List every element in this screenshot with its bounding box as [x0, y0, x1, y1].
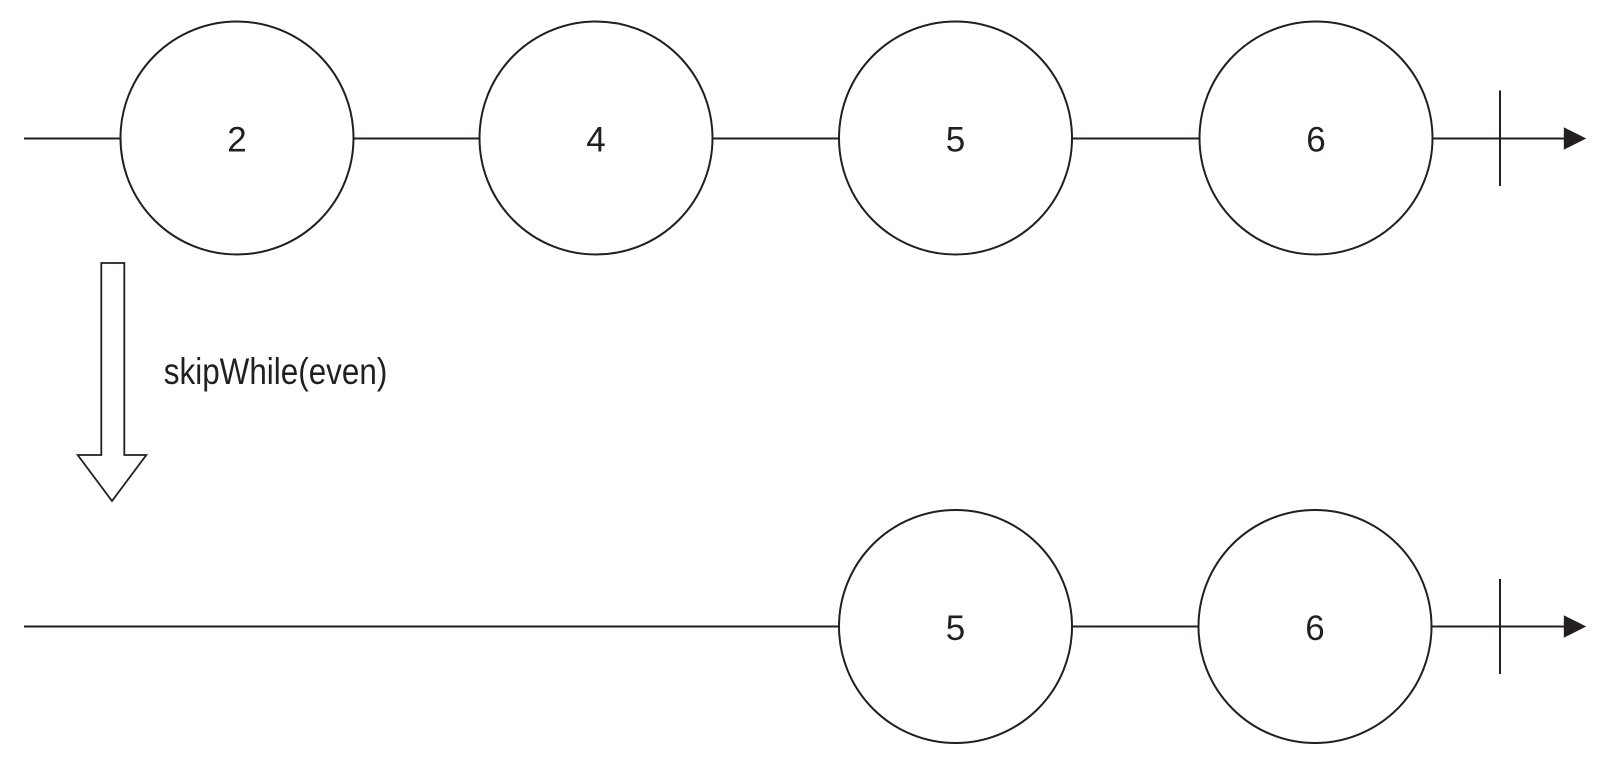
marble 4 — [480, 22, 713, 255]
svg-text:skipWhile(even): skipWhile(even) — [164, 351, 387, 392]
marble 6 (result) — [1199, 510, 1432, 743]
svg-text:2: 2 — [227, 121, 246, 160]
svg-text:5: 5 — [946, 121, 965, 160]
result completion tick — [1499, 579, 1501, 674]
result timeline wire — [24, 626, 1568, 628]
svg-text:4: 4 — [586, 121, 605, 160]
marble 2 — [121, 22, 354, 255]
source timeline arrowhead — [1564, 127, 1586, 150]
result timeline arrowhead — [1564, 615, 1586, 638]
svg-text:6: 6 — [1305, 609, 1324, 648]
svg-text:5: 5 — [946, 609, 965, 648]
source completion tick — [1499, 91, 1501, 187]
operator block arrow — [78, 263, 147, 501]
marble 5 (result) — [839, 510, 1072, 743]
marble 5 (source) — [839, 22, 1072, 255]
marble 6 (source) — [1200, 22, 1433, 255]
svg-text:6: 6 — [1306, 121, 1325, 160]
source timeline wire — [24, 138, 1568, 140]
